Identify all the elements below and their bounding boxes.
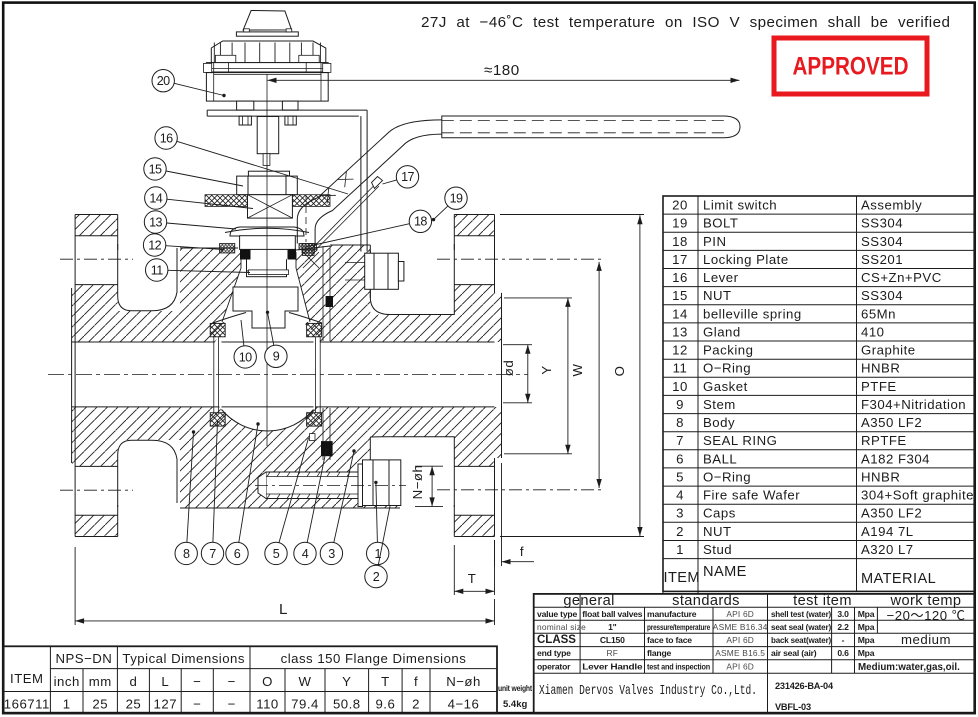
dimension ~180 [268,79,740,81]
packing box [240,236,296,250]
flange faces [72,215,502,537]
stud (item 1) [258,472,358,499]
balloon 1 [367,542,389,564]
svg-text:−: − [228,697,236,712]
svg-text:BALL: BALL [703,451,737,466]
balloon 11 leader [168,270,250,272]
flange bolt centerlines [60,259,603,490]
svg-text:1: 1 [676,542,684,557]
svg-text:−20～120 ℃: −20～120 ℃ [887,608,966,623]
svg-text:2: 2 [412,697,420,712]
svg-text:12: 12 [148,238,161,252]
svg-text:14: 14 [149,191,162,205]
svg-text:Xiamen Dervos Valves Industry: Xiamen Dervos Valves Industry Co.,Ltd. [539,683,757,699]
svg-text:nominal size: nominal size [537,622,586,632]
main horizontal centerline [48,374,528,376]
bore lines [72,342,495,407]
svg-text:0.6: 0.6 [837,648,849,658]
svg-text:25: 25 [126,697,142,712]
balloon 18 leader [305,224,410,247]
svg-text:NAME: NAME [703,564,747,580]
svg-text:6: 6 [676,451,684,466]
balloon 17 leader [383,180,397,184]
balloon 14 [145,187,167,209]
locking plate strip (item 17) [314,177,383,250]
body cap joint [323,246,330,460]
svg-text:9: 9 [676,397,684,412]
gland (item 13) [225,227,309,236]
svg-text:ITEM: ITEM [10,671,44,686]
svg-text:5.4kg: 5.4kg [503,699,527,710]
svg-text:O: O [262,674,273,689]
svg-text:-: - [842,635,845,645]
balloon 2 leader [378,506,390,566]
svg-text:18: 18 [414,215,427,229]
svg-text:1": 1" [608,622,617,632]
svg-text:14: 14 [672,306,688,321]
svg-text:SS201: SS201 [861,252,903,267]
svg-text:SS304: SS304 [861,234,903,249]
balloon 11 [146,259,168,281]
svg-text:standards: standards [672,593,740,609]
svg-text:NUT: NUT [703,288,732,303]
balloon 6 [226,542,248,564]
seat contact lines [214,337,320,413]
svg-text:≈180: ≈180 [484,62,520,79]
svg-text:A194 7L: A194 7L [861,524,914,539]
svg-text:3: 3 [328,547,335,561]
svg-text:110: 110 [256,697,279,712]
svg-text:Mpa: Mpa [858,609,875,619]
svg-text:class 150 Flange Dimensions: class 150 Flange Dimensions [281,651,467,666]
balloon 19 [445,187,467,209]
svg-text:11: 11 [673,361,688,376]
svg-text:W: W [299,674,312,689]
svg-text:Mpa: Mpa [858,648,875,658]
lever (item 16) [297,116,740,244]
ball (item 6) [208,311,328,431]
svg-text:16: 16 [672,270,688,285]
svg-text:79.4: 79.4 [291,697,319,712]
svg-text:back seat(water): back seat(water) [771,635,831,645]
svg-text:L: L [279,601,289,618]
svg-text:belleville spring: belleville spring [703,306,802,321]
svg-text:1: 1 [63,697,71,712]
svg-text:ød: ød [501,360,516,376]
svg-text:MATERIAL: MATERIAL [861,571,936,587]
svg-text:O−Ring: O−Ring [703,470,751,485]
svg-text:65Mn: 65Mn [861,306,896,321]
svg-text:127: 127 [154,697,178,712]
joint seal black upper [326,296,333,307]
body right flange [454,215,501,537]
balloon 2 [365,565,387,587]
svg-text:work temp: work temp [890,593,962,609]
packing rings (item 12) [220,244,315,254]
svg-text:8: 8 [676,415,684,430]
svg-text:air seal (air): air seal (air) [771,648,817,658]
body left hub [118,311,180,440]
svg-text:11: 11 [151,263,163,277]
svg-text:15: 15 [149,162,162,176]
balloon 8 [175,542,197,564]
locking plate section (item 17) [205,195,330,207]
svg-text:17: 17 [672,252,688,267]
svg-text:CL150: CL150 [600,635,625,645]
balloon 16 leader [177,141,348,194]
balloon 1 leader [376,482,378,542]
stem o-ring groove [249,270,289,275]
svg-text:9.6: 9.6 [375,697,395,712]
svg-text:SS304: SS304 [861,216,903,231]
svg-text:27J at −46˚C test temperature: 27J at −46˚C test temperature on ISO V s… [421,14,951,31]
svg-text:RF: RF [607,648,619,658]
ball port bore lines [222,342,314,407]
svg-text:13: 13 [672,324,688,339]
svg-text:−: − [228,674,236,689]
svg-text:T: T [468,571,477,586]
svg-text:16: 16 [160,131,173,145]
svg-text:SEAL RING: SEAL RING [703,433,777,448]
svg-text:CLASS: CLASS [537,634,576,646]
svg-text:SS304: SS304 [861,288,903,303]
svg-text:17: 17 [401,170,414,184]
balloon 3 [320,542,342,564]
svg-text:7: 7 [209,547,216,561]
svg-text:O: O [612,366,627,377]
cap stud upper + nut (item 19 area) [345,253,404,289]
svg-text:Medium:water,gas,oil.: Medium:water,gas,oil. [858,662,960,673]
svg-text:PTFE: PTFE [861,379,897,394]
dimension od [503,345,532,403]
svg-text:API 6D: API 6D [726,661,754,671]
svg-text:A320 L7: A320 L7 [861,542,914,557]
vertical stem centerline [266,74,268,446]
svg-text:N−øh: N−øh [446,674,481,689]
svg-text:HNBR: HNBR [861,470,900,485]
svg-text:8: 8 [183,547,190,561]
dimension N-oh [415,466,443,506]
svg-text:face to face: face to face [647,635,692,645]
svg-text:Typical Dimensions: Typical Dimensions [122,651,245,666]
svg-text:18: 18 [672,234,688,249]
svg-text:general: general [563,593,614,609]
svg-text:13: 13 [149,215,162,229]
dimension f [495,463,535,566]
stem (item 9) lower tee [233,287,298,328]
balloon 13 [144,211,166,233]
svg-text:HNBR: HNBR [861,361,900,376]
flange notch outlines (right) [370,244,454,507]
spec table [534,594,975,713]
balloon 13 leader [167,223,236,229]
svg-text:F304+Nitridation: F304+Nitridation [861,397,966,412]
flange notch outlines (left) [118,244,177,507]
balloon 18 [409,210,431,232]
o-ring (item 5) black [321,441,333,456]
svg-text:Packing: Packing [703,343,753,358]
svg-text:manufacture: manufacture [647,609,697,619]
svg-text:Caps: Caps [703,506,736,521]
svg-text:PIN: PIN [703,234,726,249]
svg-text:Limit switch: Limit switch [703,198,777,213]
belleville spring stack (item 14) [248,195,293,218]
limit switch (item 20) [204,11,331,102]
balloon 16 [155,127,177,149]
svg-text:9: 9 [273,350,280,364]
seal ring seats (item 7) [210,323,321,426]
svg-text:f: f [520,544,524,559]
svg-text:4: 4 [676,488,684,503]
svg-text:−: − [193,697,201,712]
svg-text:NPS−DN: NPS−DN [55,651,112,666]
svg-text:5: 5 [676,470,684,485]
svg-text:test item: test item [793,593,852,609]
nut (item 2) [358,460,401,507]
svg-text:Fire safe Wafer: Fire safe Wafer [703,488,800,503]
svg-text:2: 2 [676,524,684,539]
svg-text:APPROVED: APPROVED [793,53,909,81]
svg-text:Graphite: Graphite [861,343,916,358]
balloon 3 leader [334,451,354,543]
svg-text:Mpa: Mpa [858,635,875,645]
svg-text:20: 20 [672,198,688,213]
fire safe wafer (item 4) [310,434,316,441]
svg-text:CS+Zn+PVC: CS+Zn+PVC [861,270,942,285]
body left flange (item 3 caps region) [72,215,118,537]
body right hub [370,315,454,437]
svg-text:ASME B16.34: ASME B16.34 [713,622,768,632]
svg-text:NUT: NUT [703,524,732,539]
balloon 10 [234,346,256,368]
svg-text:flange: flange [647,648,672,658]
balloon 4 leader [307,449,326,543]
balloon 4 [294,542,316,564]
svg-text:ASME B16.5: ASME B16.5 [715,648,765,658]
svg-text:A350 LF2: A350 LF2 [861,506,922,521]
svg-text:Gland: Gland [703,324,741,339]
svg-text:Locking Plate: Locking Plate [703,252,789,267]
balloon 20 [152,70,174,92]
balloon 19 leader [434,206,448,220]
svg-text:A350 LF2: A350 LF2 [861,415,922,430]
svg-text:4: 4 [302,547,309,561]
svg-text:pressure/temperature: pressure/temperature [647,622,710,632]
svg-text:231426-BA-04: 231426-BA-04 [775,681,834,691]
svg-text:3: 3 [676,506,684,521]
svg-text:2.2: 2.2 [837,622,849,632]
svg-text:20: 20 [157,74,170,88]
svg-text:L: L [161,674,169,689]
balloon 9 [265,345,287,367]
dimension Y [504,298,572,454]
svg-text:Lever Handle: Lever Handle [582,661,642,671]
svg-text:166711: 166711 [4,697,50,712]
svg-text:Assembly: Assembly [861,198,922,213]
svg-text:seat seal (water): seat seal (water) [771,622,831,632]
svg-text:Stud: Stud [703,542,732,557]
svg-text:W: W [570,363,585,376]
balloon 17 [396,166,418,188]
svg-text:19: 19 [450,192,463,206]
svg-text:Lever: Lever [703,270,739,285]
dimension O [500,215,644,537]
svg-text:15: 15 [672,288,688,303]
svg-text:ITEM: ITEM [664,570,700,586]
svg-text:4−16: 4−16 [448,697,480,712]
body centre boss lower [180,407,400,508]
svg-text:5: 5 [273,547,280,561]
bonnet neck [247,259,287,277]
dimension T [454,540,494,595]
svg-text:12: 12 [672,343,688,358]
o-ring seals black (item 11) [240,249,296,260]
svg-text:25: 25 [92,697,108,712]
balloon 12 leader [166,246,223,250]
svg-text:7: 7 [676,433,684,448]
balloon 10 leader [241,320,244,346]
svg-text:RPTFE: RPTFE [861,433,907,448]
svg-text:API 6D: API 6D [726,635,754,645]
svg-text:value type: value type [537,609,577,619]
dimension W [598,262,600,488]
svg-text:10: 10 [239,350,252,364]
svg-text:API 6D: API 6D [726,609,754,619]
balloon 15 [144,158,166,180]
svg-text:6: 6 [234,547,241,561]
svg-text:test and inspection: test and inspection [647,661,710,671]
svg-text:T: T [381,674,390,689]
balloon 7 [201,542,223,564]
balloon 14 leader [167,199,253,208]
stem shaft [248,117,289,177]
svg-text:VBFL-03: VBFL-03 [775,702,811,712]
balloon 9 leader [268,312,274,345]
lever bent tab [299,195,319,268]
svg-text:50.8: 50.8 [333,697,361,712]
mounting bracket plate [207,110,367,251]
svg-text:Mpa: Mpa [858,622,875,632]
svg-text:Y: Y [539,365,554,374]
svg-text:Y: Y [342,674,351,689]
boss outline [118,215,455,537]
svg-text:304+Soft graphite: 304+Soft graphite [861,488,974,503]
balloon 15 leader [166,171,243,186]
stem nut (item 15) [237,176,298,195]
svg-text:3.0: 3.0 [837,609,849,619]
svg-text:N−øh: N−øh [410,465,425,500]
flange dimension table [3,646,497,713]
svg-text:unit weight: unit weight [498,683,532,693]
balloon 8 leader [187,432,194,542]
svg-text:19: 19 [672,216,688,231]
balloon 6 leader [239,424,258,542]
balloon 5 [265,542,287,564]
svg-text:2: 2 [373,570,380,584]
svg-text:operator: operator [537,661,571,671]
limit switch mounting bolts [237,101,298,125]
body centre boss upper [180,245,370,342]
lever shaft cross mark [320,171,354,203]
svg-text:A182 F304: A182 F304 [861,451,930,466]
svg-text:medium: medium [901,632,951,647]
svg-text:float ball valves: float ball valves [582,609,642,619]
balloon 5 leader [279,438,309,543]
parts list table [663,196,975,594]
balloon 12 [143,234,165,256]
svg-text:mm: mm [89,674,112,689]
svg-text:shell test (water): shell test (water) [771,609,831,619]
svg-text:−: − [193,674,201,689]
svg-text:d: d [129,674,137,689]
svg-text:Stem: Stem [703,397,736,412]
svg-text:f: f [414,674,418,689]
balloon 7 leader [213,421,218,542]
balloon 20 leader [174,83,224,95]
svg-text:Gasket: Gasket [703,379,748,394]
svg-text:inch: inch [54,674,80,689]
svg-text:O−Ring: O−Ring [703,361,751,376]
svg-text:BOLT: BOLT [703,216,738,231]
svg-text:410: 410 [861,324,885,339]
APPROVED stamp [774,38,927,94]
svg-text:end type: end type [537,648,571,658]
svg-text:Body: Body [703,415,735,430]
dimension L [75,547,494,625]
svg-text:10: 10 [672,379,688,394]
